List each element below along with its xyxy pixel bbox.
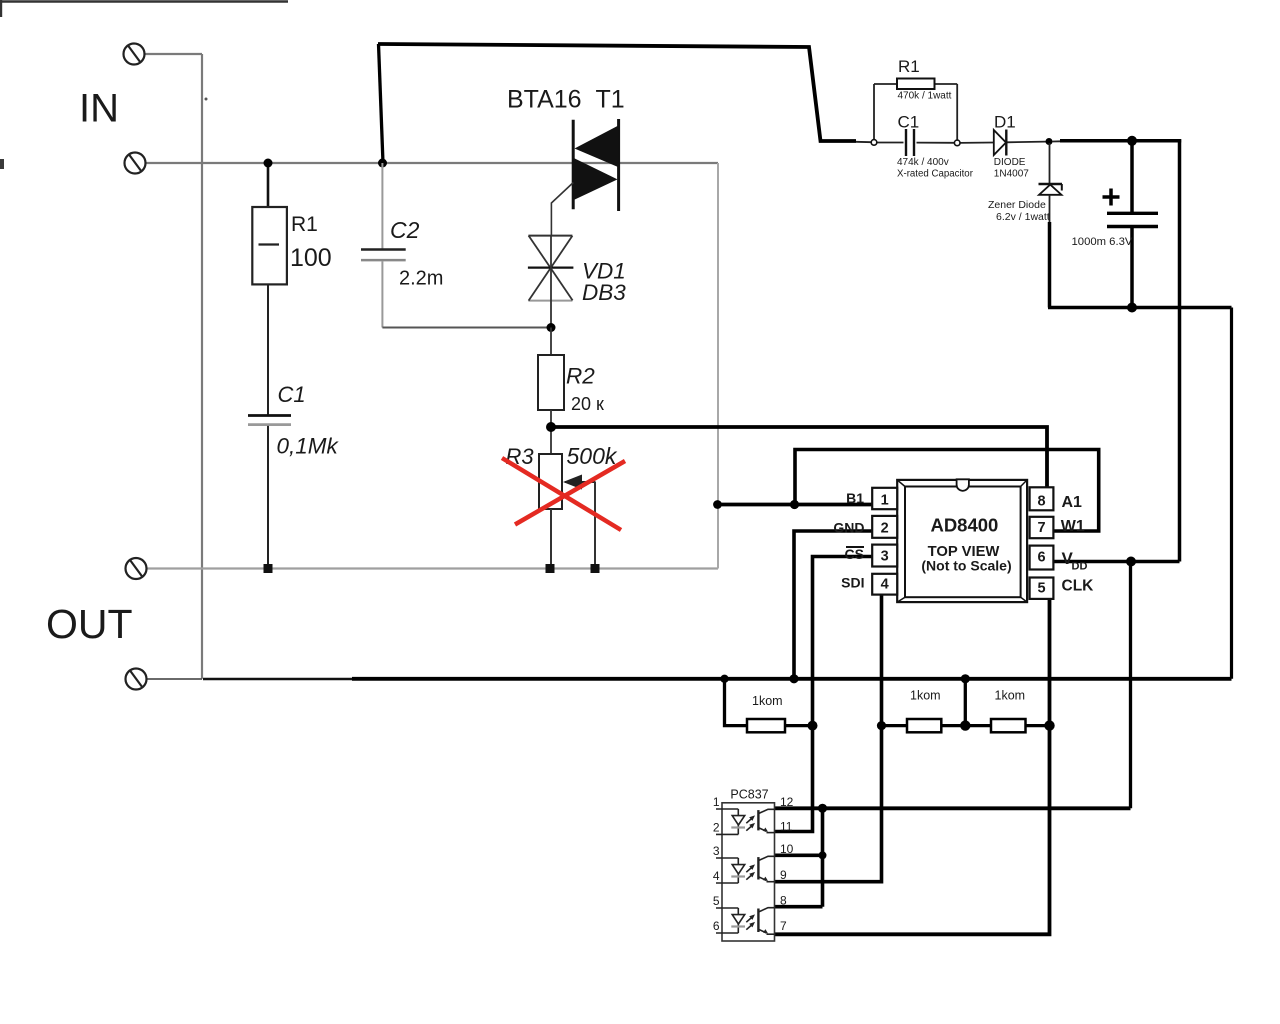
svg-text:SDI: SDI	[841, 575, 864, 591]
svg-text:3: 3	[881, 549, 889, 565]
svg-text:7: 7	[780, 919, 787, 933]
svg-text:6.2v / 1watt: 6.2v / 1watt	[996, 211, 1050, 223]
svg-text:1000m 6.3V: 1000m 6.3V	[1072, 236, 1133, 248]
svg-text:GND: GND	[833, 520, 864, 536]
svg-text:100: 100	[290, 244, 332, 272]
svg-text:1: 1	[713, 795, 720, 809]
svg-text:5: 5	[1037, 581, 1045, 597]
svg-text:3: 3	[713, 844, 720, 858]
svg-text:8: 8	[1037, 494, 1045, 510]
svg-text:C1: C1	[898, 113, 920, 132]
svg-text:2.2m: 2.2m	[399, 268, 443, 290]
svg-text:1kom: 1kom	[910, 689, 941, 703]
svg-text:7: 7	[1037, 520, 1045, 536]
svg-text:R1: R1	[291, 213, 318, 236]
svg-text:W1: W1	[1061, 518, 1085, 535]
svg-text:20 к: 20 к	[571, 394, 604, 414]
svg-text:1N4007: 1N4007	[994, 168, 1029, 179]
svg-text:B1: B1	[846, 490, 864, 506]
svg-text:0,1Mk: 0,1Mk	[277, 434, 340, 459]
svg-text:OUT: OUT	[46, 601, 133, 647]
svg-text:2: 2	[881, 521, 889, 537]
svg-text:D1: D1	[994, 113, 1016, 132]
svg-text:12: 12	[780, 795, 794, 809]
svg-text:CS: CS	[845, 546, 864, 562]
svg-text:R1: R1	[898, 57, 920, 76]
svg-text:C1: C1	[278, 382, 306, 407]
svg-text:A1: A1	[1062, 494, 1083, 511]
svg-text:470k / 1watt: 470k / 1watt	[898, 91, 952, 102]
svg-text:1kom: 1kom	[752, 694, 783, 708]
svg-text:R2: R2	[566, 364, 595, 389]
svg-text:1kom: 1kom	[995, 689, 1026, 703]
svg-text:6: 6	[713, 919, 720, 933]
svg-text:6: 6	[1037, 550, 1045, 566]
svg-text:IN: IN	[79, 87, 119, 131]
svg-text:CLK: CLK	[1062, 578, 1095, 595]
svg-text:10: 10	[780, 842, 794, 856]
svg-text:Zener Diode: Zener Diode	[988, 199, 1046, 211]
svg-text:2: 2	[713, 820, 720, 834]
svg-text:9: 9	[780, 868, 787, 882]
svg-text:AD8400: AD8400	[930, 515, 998, 536]
svg-text:PC837: PC837	[730, 788, 768, 802]
svg-text:C2: C2	[390, 217, 420, 243]
svg-text:(Not to Scale): (Not to Scale)	[921, 558, 1011, 574]
svg-text:474k / 400v: 474k / 400v	[897, 157, 949, 168]
svg-text:DIODE: DIODE	[994, 157, 1026, 168]
svg-text:500k: 500k	[567, 443, 618, 469]
svg-text:11: 11	[780, 820, 793, 834]
svg-text:8: 8	[780, 894, 787, 908]
svg-text:X-rated Capacitor: X-rated Capacitor	[897, 168, 974, 179]
svg-text:BTA16 T1: BTA16 T1	[507, 86, 625, 114]
svg-text:DB3: DB3	[582, 280, 626, 305]
svg-text:5: 5	[713, 894, 720, 908]
svg-text:1: 1	[881, 493, 889, 509]
svg-text:4: 4	[713, 869, 720, 883]
svg-text:4: 4	[881, 577, 889, 593]
svg-text:DD: DD	[1072, 560, 1088, 572]
